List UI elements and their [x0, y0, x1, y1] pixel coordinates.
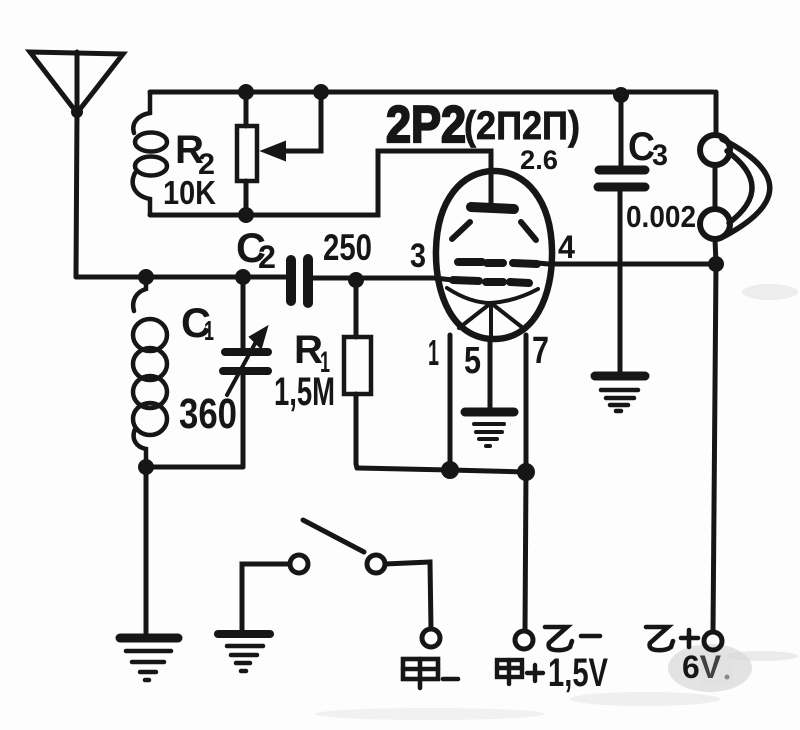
capacitor C3 — [598, 96, 645, 371]
label C3 — [628, 125, 668, 172]
label R2 — [175, 128, 215, 181]
wire tank bottom — [146, 465, 243, 470]
label 乙+ — [646, 627, 698, 650]
svg-text:1,5M: 1,5M — [274, 370, 335, 414]
tube beam plate dashes — [452, 222, 536, 240]
svg-text:1,5V: 1,5V — [548, 651, 608, 695]
wire bottom row — [357, 468, 526, 472]
wire switch left to ground — [242, 564, 290, 632]
svg-text:3: 3 — [652, 139, 668, 172]
smudge overlay on 6V — [701, 653, 733, 685]
svg-text:250: 250 — [323, 227, 372, 268]
headphones — [700, 92, 770, 264]
svg-text:360: 360 — [179, 390, 237, 438]
svg-text:R: R — [294, 328, 323, 372]
terminal A- — [422, 629, 440, 647]
potentiometer R2 — [237, 92, 257, 215]
coil L2 — [133, 92, 167, 215]
switch S1 — [290, 520, 385, 573]
wire R2 bottom to plate — [150, 151, 491, 215]
wire top bus — [150, 90, 713, 95]
svg-text:2P2: 2P2 — [386, 96, 466, 154]
ground G3 under pin5 — [465, 412, 514, 446]
svg-text:2: 2 — [258, 239, 276, 275]
tube pin 7 lead — [524, 335, 529, 472]
tube grid row lower — [453, 280, 529, 283]
svg-text:5: 5 — [464, 340, 481, 382]
ground G4 under C3 — [595, 376, 645, 411]
svg-text:0.002: 0.002 — [626, 199, 696, 234]
svg-text:10K: 10K — [163, 174, 216, 211]
label C2 — [236, 224, 276, 275]
capacitor C2 — [291, 259, 308, 303]
resistor R1 — [344, 280, 371, 468]
tube U1 envelope — [436, 171, 552, 339]
label 乙- — [545, 627, 600, 650]
wire B+ — [713, 264, 716, 632]
scan smudges — [315, 284, 798, 720]
wire to battery A+ — [525, 472, 526, 631]
label C1 — [181, 299, 214, 346]
terminal A+ — [515, 631, 533, 649]
wiper arrow R2 — [262, 92, 321, 160]
svg-text:1: 1 — [428, 332, 439, 373]
tube plate — [471, 207, 514, 209]
label 甲- — [403, 659, 458, 688]
svg-text:1: 1 — [204, 315, 214, 346]
coil L1 — [133, 277, 167, 467]
ground G2 — [218, 634, 270, 671]
tube filament — [447, 288, 538, 340]
svg-text:3: 3 — [410, 237, 426, 275]
label 甲+1,5V — [497, 651, 608, 695]
terminal B+ — [704, 632, 722, 650]
svg-text:7: 7 — [532, 330, 549, 372]
ground G1 — [120, 638, 178, 680]
svg-text:C: C — [628, 125, 655, 169]
wire pin4 — [538, 263, 716, 264]
antenna — [30, 52, 123, 118]
wire antenna lead — [76, 113, 77, 277]
wire pin3 (bus continues into tube) — [434, 278, 453, 280]
tube grid row upper — [458, 262, 537, 264]
tube pin 1 lead — [448, 335, 453, 470]
tube pin 5 lead — [488, 340, 493, 407]
wire main bus — [76, 277, 434, 278]
svg-text:2.6: 2.6 — [520, 145, 558, 175]
label R1 — [294, 328, 330, 379]
wire switch right to terminal A- — [385, 562, 431, 629]
svg-text:4: 4 — [558, 229, 575, 265]
svg-text:(2П2П): (2П2П) — [464, 104, 580, 148]
wire left ground lead — [144, 467, 149, 633]
capacitor C1 variable — [223, 277, 268, 467]
